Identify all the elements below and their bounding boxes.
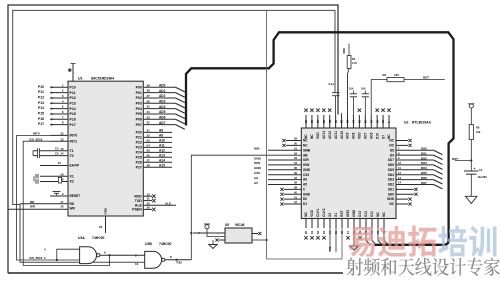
- svg-text:NC: NC: [310, 134, 314, 139]
- svg-text:+: +: [474, 167, 476, 171]
- svg-text:D84: D84: [421, 166, 427, 170]
- svg-text:66: 66: [340, 231, 344, 234]
- svg-text:INT0: INT0: [70, 134, 78, 138]
- svg-text:AD8: AD8: [352, 132, 356, 139]
- svg-text:P15: P15: [38, 112, 44, 116]
- svg-text:0.1u: 0.1u: [329, 82, 335, 86]
- svg-text:A11: A11: [159, 144, 165, 148]
- svg-text:100: 100: [394, 73, 399, 77]
- svg-text:P24: P24: [136, 151, 142, 155]
- svg-text:74HC00: 74HC00: [92, 236, 105, 240]
- svg-text:C6: C6: [55, 151, 59, 155]
- svg-text:P21: P21: [136, 136, 142, 140]
- svg-text:GND: GND: [254, 156, 262, 160]
- svg-text:60: 60: [304, 231, 308, 234]
- svg-text:AD2: AD2: [159, 94, 166, 98]
- svg-text:P06: P06: [136, 117, 142, 121]
- svg-text:U3B: U3B: [145, 242, 152, 246]
- svg-text:74HC00: 74HC00: [159, 242, 172, 246]
- svg-text:86: 86: [310, 120, 314, 123]
- svg-text:13: 13: [60, 137, 64, 141]
- svg-text:P23: P23: [136, 146, 142, 150]
- svg-text:RESET: RESET: [70, 194, 81, 198]
- svg-text:AD5: AD5: [159, 110, 166, 114]
- svg-text:28: 28: [147, 163, 151, 167]
- svg-text:IOR: IOR: [303, 158, 309, 162]
- svg-text:32: 32: [147, 121, 151, 125]
- svg-text:R8: R8: [383, 73, 387, 77]
- svg-text:15: 15: [60, 147, 64, 151]
- svg-text:A9: A9: [303, 178, 307, 182]
- svg-text:AD0: AD0: [159, 84, 166, 88]
- svg-text:D13: D13: [358, 211, 362, 217]
- svg-text:14: 14: [60, 152, 64, 156]
- svg-text:33: 33: [147, 115, 151, 119]
- svg-text:P20: P20: [136, 131, 142, 135]
- svg-text:67: 67: [346, 231, 350, 234]
- svg-text:D1: D1: [303, 202, 307, 206]
- svg-text:31: 31: [58, 161, 62, 165]
- svg-text:P07: P07: [136, 123, 142, 127]
- svg-text:SD4: SD4: [388, 173, 394, 177]
- svg-text:CS3: CS3: [254, 171, 260, 175]
- svg-text:GND: GND: [352, 209, 356, 217]
- svg-text:NC: NC: [389, 143, 394, 147]
- svg-text:IOW: IOW: [303, 163, 309, 167]
- svg-text:99: 99: [381, 120, 385, 123]
- svg-text:61: 61: [310, 231, 314, 234]
- svg-text:P32: P32: [177, 261, 183, 265]
- svg-text:RST: RST: [423, 75, 429, 79]
- svg-text:A13: A13: [159, 154, 165, 158]
- svg-text:/CS_8019: /CS_8019: [29, 137, 43, 141]
- svg-text:D80: D80: [421, 147, 427, 151]
- svg-text:35: 35: [147, 105, 151, 109]
- svg-text:AD6: AD6: [369, 132, 373, 139]
- svg-text:AD13: AD13: [322, 131, 326, 139]
- svg-text:CLK1: CLK1: [316, 208, 320, 217]
- svg-text:GND: GND: [303, 168, 311, 172]
- svg-text:87: 87: [316, 120, 320, 123]
- svg-text:A5: A5: [303, 183, 307, 187]
- svg-text:AD7: AD7: [159, 121, 166, 125]
- svg-text:A9: A9: [254, 176, 258, 180]
- svg-text:13: 13: [398, 176, 401, 180]
- svg-text:SD7: SD7: [388, 158, 394, 162]
- svg-text:P15: P15: [70, 112, 76, 116]
- svg-text:88: 88: [322, 120, 326, 123]
- svg-text:GND: GND: [254, 166, 262, 170]
- svg-text:12: 12: [60, 132, 64, 136]
- svg-text:NC: NC: [389, 139, 394, 143]
- svg-text:GND: GND: [104, 207, 108, 215]
- svg-text:SMB: SMB: [303, 148, 311, 152]
- svg-text:IOB: IOB: [254, 147, 260, 151]
- svg-text:93: 93: [346, 120, 350, 123]
- svg-text:GND: GND: [387, 197, 395, 201]
- svg-text:P01: P01: [136, 91, 142, 95]
- svg-text:36: 36: [147, 99, 151, 103]
- svg-text:SD2: SD2: [388, 183, 394, 187]
- svg-text:X1: X1: [334, 213, 338, 217]
- svg-text:97: 97: [369, 120, 373, 123]
- svg-text:VDD: VDD: [316, 132, 320, 139]
- svg-text:10: 10: [398, 161, 401, 165]
- svg-text:INT0: INT0: [346, 210, 350, 217]
- svg-text:AD9: AD9: [346, 132, 350, 139]
- svg-text:16: 16: [60, 205, 64, 209]
- svg-text:A5: A5: [254, 181, 258, 185]
- svg-text:AD12: AD12: [328, 131, 332, 139]
- svg-text:P12: P12: [38, 96, 44, 100]
- svg-text:34: 34: [147, 110, 151, 114]
- svg-text:D86: D86: [421, 176, 427, 180]
- svg-text:89: 89: [328, 120, 332, 123]
- svg-text:P16: P16: [38, 117, 44, 121]
- svg-text:C4: C4: [479, 168, 483, 172]
- svg-text:96: 96: [363, 120, 367, 123]
- svg-text:D15: D15: [375, 133, 379, 139]
- svg-text:P11: P11: [70, 91, 76, 95]
- svg-text:R9: R9: [476, 126, 480, 130]
- svg-text:P11: P11: [38, 90, 44, 94]
- svg-text:P02: P02: [136, 96, 142, 100]
- svg-text:C5: C5: [55, 147, 59, 151]
- svg-text:INT0: INT0: [33, 132, 40, 136]
- svg-text:X2: X2: [328, 213, 332, 217]
- svg-text:62: 62: [316, 231, 320, 234]
- svg-text:P00: P00: [136, 86, 142, 90]
- svg-text:38: 38: [147, 89, 151, 93]
- svg-text:NC: NC: [389, 202, 394, 206]
- svg-text:A14: A14: [159, 158, 165, 162]
- svg-text:CS3: CS3: [303, 173, 309, 177]
- svg-text:98: 98: [375, 120, 379, 123]
- svg-text:A9: A9: [159, 134, 163, 138]
- svg-text:SD5: SD5: [388, 168, 394, 172]
- svg-text:VDD: VDD: [342, 48, 346, 54]
- svg-text:/CS_8019: /CS_8019: [29, 256, 43, 260]
- svg-text:T0: T0: [70, 154, 74, 158]
- svg-text:4.7k: 4.7k: [352, 62, 357, 65]
- svg-text:AD10: AD10: [340, 131, 344, 139]
- svg-text:X2: X2: [70, 180, 74, 184]
- svg-text:T1: T1: [70, 149, 74, 153]
- svg-text:14: 14: [398, 181, 401, 185]
- svg-text:AD4: AD4: [159, 105, 166, 109]
- svg-text:P14: P14: [70, 107, 76, 111]
- svg-text:D0: D0: [303, 197, 307, 201]
- svg-text:NC: NC: [382, 211, 386, 216]
- svg-text:AD3: AD3: [159, 99, 166, 103]
- svg-text:27: 27: [147, 158, 151, 162]
- svg-text:PSEN: PSEN: [132, 208, 142, 212]
- svg-text:D87: D87: [421, 181, 427, 185]
- svg-text:NC: NC: [376, 211, 380, 216]
- svg-text:RD: RD: [70, 202, 75, 206]
- svg-text:D85: D85: [421, 171, 427, 175]
- svg-text:P12: P12: [70, 96, 76, 100]
- svg-text:63: 63: [322, 231, 326, 234]
- svg-text:RST: RST: [340, 210, 344, 216]
- svg-text:94: 94: [352, 120, 356, 123]
- svg-text:RTL8019AS: RTL8019AS: [412, 121, 432, 125]
- svg-text:IOW: IOW: [254, 161, 260, 165]
- svg-text:GND: GND: [303, 192, 311, 196]
- svg-text:D12: D12: [364, 211, 368, 217]
- svg-text:10: 10: [135, 262, 139, 266]
- svg-text:EA/VP: EA/VP: [70, 164, 80, 168]
- svg-text:A12: A12: [159, 149, 165, 153]
- svg-text:CLK2: CLK2: [322, 208, 326, 217]
- svg-text:P04: P04: [136, 107, 142, 111]
- svg-text:SD0: SD0: [388, 192, 394, 196]
- svg-text:WR: WR: [70, 207, 76, 211]
- svg-text:AB: AB: [303, 153, 308, 157]
- svg-text:104: 104: [349, 86, 354, 90]
- svg-text:19: 19: [60, 172, 64, 176]
- svg-text:ALE: ALE: [165, 201, 171, 205]
- svg-text:P16: P16: [70, 117, 76, 121]
- svg-text:37: 37: [147, 94, 151, 98]
- svg-text:P05: P05: [136, 112, 142, 116]
- svg-text:P13: P13: [38, 101, 44, 105]
- svg-text:A8: A8: [159, 129, 163, 133]
- svg-text:A15: A15: [159, 163, 165, 167]
- svg-text:D7: D7: [381, 135, 385, 139]
- svg-text:U5: U5: [225, 223, 229, 227]
- svg-text:23: 23: [147, 138, 151, 142]
- svg-text:P14: P14: [38, 106, 44, 110]
- svg-text:D82: D82: [421, 156, 427, 160]
- svg-text:104: 104: [361, 86, 366, 90]
- svg-text:P10: P10: [38, 85, 44, 89]
- svg-text:SD1: SD1: [388, 187, 394, 191]
- svg-text:20: 20: [99, 225, 103, 229]
- svg-text:90: 90: [334, 120, 338, 123]
- svg-text:SD3: SD3: [388, 178, 394, 182]
- svg-text:D9: D9: [390, 153, 394, 157]
- svg-text:WR: WR: [30, 205, 36, 209]
- svg-text:17: 17: [60, 200, 64, 204]
- svg-text:AD7: AD7: [364, 132, 368, 139]
- svg-text:21: 21: [147, 129, 151, 133]
- svg-text:SD6: SD6: [388, 163, 394, 167]
- svg-text:P17: P17: [70, 123, 76, 127]
- svg-text:32: 32: [294, 151, 297, 155]
- svg-text:85: 85: [304, 120, 308, 123]
- svg-text:25: 25: [147, 148, 151, 152]
- svg-text:X1: X1: [70, 174, 74, 178]
- svg-text:10k: 10k: [476, 130, 481, 134]
- svg-text:93C46: 93C46: [235, 223, 245, 227]
- svg-text:D11: D11: [370, 211, 374, 217]
- svg-text:P03: P03: [136, 101, 142, 105]
- svg-text:NC: NC: [303, 139, 308, 143]
- svg-text:12: 12: [398, 171, 401, 175]
- svg-text:P25: P25: [136, 156, 142, 160]
- svg-text:39: 39: [147, 83, 151, 87]
- svg-text:89C51RD2HH: 89C51RD2HH: [91, 77, 114, 81]
- svg-text:D81: D81: [421, 151, 427, 155]
- svg-text:T01: T01: [328, 246, 332, 251]
- svg-text:92: 92: [340, 120, 344, 123]
- svg-text:10u/16V: 10u/16V: [478, 176, 488, 179]
- svg-text:D83: D83: [421, 161, 427, 165]
- svg-text:VDD: VDD: [310, 209, 314, 216]
- svg-text:U1: U1: [78, 77, 83, 81]
- svg-text:11: 11: [147, 197, 150, 201]
- svg-text:95: 95: [357, 120, 361, 123]
- svg-text:AD1: AD1: [159, 89, 166, 93]
- svg-text:U3A: U3A: [78, 236, 85, 240]
- svg-text:U2: U2: [404, 121, 408, 125]
- svg-text:24: 24: [147, 143, 151, 147]
- svg-text:P22: P22: [136, 141, 142, 145]
- svg-text:A10: A10: [159, 139, 165, 143]
- svg-text:TXD: TXD: [135, 199, 142, 203]
- svg-text:AD11: AD11: [334, 131, 338, 139]
- svg-text:26: 26: [147, 153, 151, 157]
- svg-text:P26: P26: [136, 160, 142, 164]
- svg-text:22: 22: [147, 133, 151, 137]
- svg-text:AD6: AD6: [159, 115, 166, 119]
- svg-text:NC: NC: [304, 211, 308, 216]
- svg-text:P13: P13: [70, 101, 76, 105]
- svg-text:D8: D8: [390, 148, 394, 152]
- svg-text:VDD: VDD: [358, 132, 362, 139]
- svg-text:NC: NC: [303, 143, 308, 147]
- svg-text:INT1: INT1: [70, 139, 78, 143]
- svg-text:RXD: RXD: [134, 194, 142, 198]
- svg-text:P10: P10: [70, 86, 76, 90]
- svg-text:P27: P27: [136, 165, 142, 169]
- svg-text:P17: P17: [38, 122, 44, 126]
